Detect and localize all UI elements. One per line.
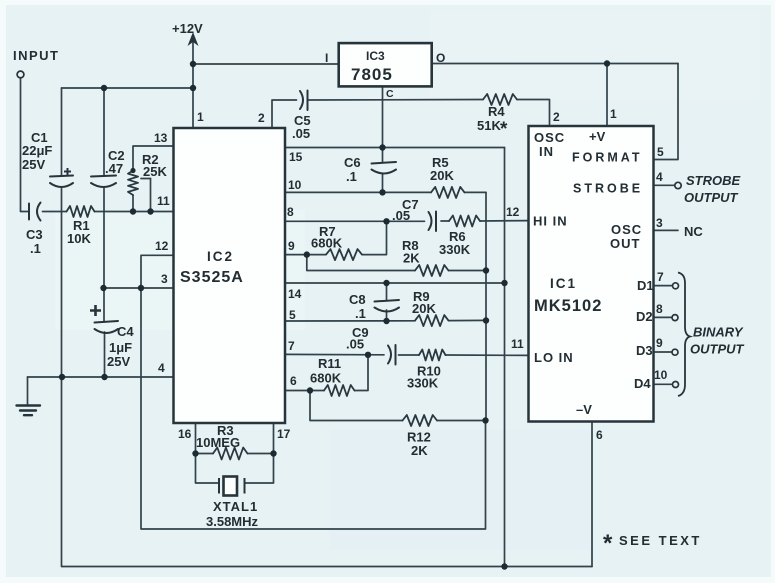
svg-text:C3: C3	[26, 227, 43, 242]
wire IC2 pin 13 to R2	[133, 146, 174, 171]
capacitor C3 .1	[28, 204, 30, 220]
svg-text:OUTPUT: OUTPUT	[690, 342, 745, 357]
wire IC1 pin 10 D4	[654, 383, 672, 385]
svg-text:S3525A: S3525A	[180, 269, 244, 286]
svg-text:9: 9	[656, 336, 663, 350]
svg-text:–V: –V	[576, 402, 592, 417]
wire IC1 pin 7 D1	[654, 285, 672, 287]
wire +5 vertical A	[504, 148, 506, 567]
svg-text:16: 16	[178, 427, 192, 441]
svg-text:12: 12	[155, 239, 169, 253]
wire R11 right lead up	[355, 355, 369, 391]
svg-text:10MEG: 10MEG	[196, 435, 240, 450]
capacitor C6 .1	[372, 162, 397, 164]
svg-text:25K: 25K	[143, 164, 167, 179]
wire IC1 pin 1 drop	[606, 64, 608, 127]
capacitor C8 .1	[375, 300, 400, 302]
svg-text:3.58MHz: 3.58MHz	[206, 514, 259, 529]
svg-text:330K: 330K	[439, 242, 471, 257]
wire IC2 pin 3	[104, 287, 174, 289]
svg-text:.1: .1	[346, 169, 357, 184]
wire IC2 pin 14 row	[285, 282, 505, 284]
svg-text:R11: R11	[318, 356, 341, 371]
svg-text:O: O	[436, 51, 445, 65]
svg-text:3: 3	[656, 216, 663, 230]
wire IC2 pin 9 row	[285, 254, 326, 256]
wire IC2 pin 7 / LO IN row	[285, 353, 384, 355]
wire IC2 pin 2 up through C5/R4 to IC1 pin 2	[272, 100, 297, 128]
wire vertical B	[485, 192, 487, 420]
C4 polarity +	[90, 305, 101, 316]
svg-text:25V: 25V	[107, 354, 130, 369]
wire IC1 pin 8 D2	[654, 316, 672, 318]
resistor R10 330K	[419, 350, 446, 361]
wire C2 to C4 vertical	[103, 212, 105, 323]
svg-text:*: *	[603, 530, 613, 557]
svg-text:D3: D3	[636, 343, 653, 358]
capacitor C7 .05	[429, 212, 432, 230]
svg-text:1: 1	[197, 110, 204, 124]
svg-text:17: 17	[277, 427, 291, 441]
wire R2 bottom lead	[132, 195, 134, 212]
svg-text:.05: .05	[346, 337, 364, 352]
svg-text:10: 10	[654, 368, 668, 382]
svg-text:2K: 2K	[403, 251, 420, 266]
svg-text:1: 1	[610, 107, 617, 121]
svg-text:8: 8	[656, 302, 663, 316]
svg-text:.05: .05	[292, 126, 310, 141]
capacitor C5 .05	[300, 91, 303, 109]
svg-text:51K: 51K	[477, 118, 501, 133]
D3 terminal	[672, 349, 678, 355]
resistor R1 10K	[67, 206, 95, 217]
wire IC3 common drop	[382, 87, 384, 148]
svg-text:OUTPUT: OUTPUT	[684, 190, 739, 205]
wire R2 wiper	[150, 179, 152, 212]
svg-text:12: 12	[506, 205, 520, 219]
resistor R3 10MEG	[213, 448, 248, 460]
svg-text:10: 10	[288, 178, 302, 192]
svg-text:1μF: 1μF	[109, 340, 132, 355]
wire IC3 output to right corner	[432, 63, 678, 65]
svg-text:15: 15	[289, 150, 303, 164]
capacitor C2 .47	[91, 176, 116, 177]
svg-text:HI IN: HI IN	[533, 214, 568, 229]
wire +12V vertical to IC2 pin 1	[192, 42, 194, 128]
svg-text:NC: NC	[684, 224, 703, 239]
svg-text:3: 3	[161, 272, 168, 286]
+12V arrow	[188, 32, 199, 46]
svg-text:IC2: IC2	[207, 249, 234, 264]
svg-text:D2: D2	[636, 309, 653, 324]
svg-text:C4: C4	[117, 324, 134, 339]
resistor R12 2K	[403, 415, 438, 426]
wire C1 branch to bottom rail	[62, 377, 593, 567]
resistor R5 20K	[431, 187, 465, 198]
wire C1/C2 top rail	[62, 87, 194, 89]
wire IC2 pin 16	[195, 423, 197, 454]
svg-text:10K: 10K	[67, 231, 91, 246]
svg-text:*: *	[500, 119, 508, 140]
wire C2 leads	[103, 88, 105, 176]
svg-text:2: 2	[258, 111, 265, 125]
IC1 MK5102 box	[529, 126, 654, 422]
resistor R8 2K	[415, 265, 449, 276]
svg-text:2K: 2K	[411, 443, 428, 458]
svg-text:FORMAT: FORMAT	[572, 151, 643, 165]
svg-text:20K: 20K	[412, 301, 436, 316]
wire IC1 pin 4 strobe output	[654, 184, 675, 186]
wire R8 branch	[307, 255, 415, 271]
svg-text:.1: .1	[30, 241, 41, 256]
svg-text:C: C	[386, 88, 394, 100]
input terminal circle	[17, 71, 24, 78]
svg-text:22μF: 22μF	[22, 143, 52, 158]
svg-text:I: I	[325, 51, 328, 65]
svg-text:INPUT: INPUT	[13, 48, 60, 63]
C1 polarity +	[64, 168, 71, 175]
wire -V riser	[591, 422, 593, 567]
svg-text:MK5102: MK5102	[534, 297, 602, 315]
wire IC2 pin 12 long bottom loop	[141, 255, 486, 529]
IC3 7805 box	[339, 43, 432, 86]
svg-text:R4: R4	[488, 104, 505, 119]
svg-text:8: 8	[287, 205, 294, 219]
wire IC2 pin 5 row / R9	[285, 320, 415, 322]
svg-text:4: 4	[158, 361, 165, 375]
wire IC2 pin 10 row to R5	[285, 191, 431, 193]
svg-text:6: 6	[290, 374, 297, 388]
resistor R9 20K	[415, 315, 449, 326]
D1 terminal	[673, 283, 679, 289]
strobe output terminal	[675, 182, 681, 188]
ground	[17, 406, 41, 416]
wire IC2 pin 8 / HI IN row	[285, 220, 425, 222]
wire input row to IC2 pin 11	[43, 211, 67, 213]
crystal XTAL1	[219, 477, 245, 496]
svg-text:14: 14	[288, 287, 302, 301]
wire R7 right lead up to pin8 row	[362, 221, 387, 254]
svg-text:13: 13	[154, 131, 168, 145]
wire right corner down to pin 5	[654, 64, 679, 160]
svg-text:STROBE: STROBE	[573, 182, 643, 196]
wire XTAL1 leads	[196, 454, 220, 484]
svg-text:STROBE: STROBE	[686, 173, 741, 188]
svg-text:XTAL1: XTAL1	[213, 499, 258, 514]
svg-text:OSC: OSC	[534, 130, 565, 145]
wire IC1 pin 3 NC	[654, 229, 679, 231]
svg-text:680K: 680K	[310, 371, 342, 386]
svg-text:6: 6	[596, 428, 603, 442]
wire C1 leads	[61, 88, 63, 176]
svg-text:IC3: IC3	[366, 49, 385, 63]
svg-text:5: 5	[289, 308, 296, 322]
svg-text:OUT: OUT	[610, 236, 640, 251]
svg-text:11: 11	[511, 337, 524, 351]
wire IC2 pin 4 / ground row	[28, 376, 174, 378]
svg-text:20K: 20K	[430, 168, 454, 183]
svg-text:+12V: +12V	[172, 21, 203, 36]
svg-text:7: 7	[657, 270, 664, 284]
svg-text:680K: 680K	[311, 236, 343, 251]
svg-text:7: 7	[288, 339, 295, 353]
svg-text:25V: 25V	[22, 157, 45, 172]
svg-text:9: 9	[288, 239, 295, 253]
svg-text:SEE TEXT: SEE TEXT	[619, 533, 702, 548]
svg-text:+V: +V	[589, 129, 606, 144]
svg-text:.1: .1	[355, 306, 366, 321]
svg-text:11: 11	[157, 194, 170, 208]
wire IC2 pin 15 row	[285, 147, 505, 149]
wire IC2 pin 17	[273, 423, 275, 454]
svg-text:D1: D1	[637, 278, 654, 293]
resistor R11 680K	[324, 385, 355, 396]
svg-text:2: 2	[553, 110, 560, 124]
binary output brace	[678, 273, 690, 397]
svg-text:D4: D4	[634, 376, 651, 391]
capacitor C1 22uF	[50, 176, 73, 177]
resistor R2 25K (trimmer)	[128, 171, 138, 196]
wire IC1 pin 9 D3	[654, 351, 672, 353]
IC2 S3525A box	[174, 128, 286, 423]
wire C6 leads	[382, 148, 384, 163]
svg-text:BINARY: BINARY	[693, 325, 744, 340]
wire ground stub	[27, 377, 29, 404]
svg-text:4: 4	[656, 170, 663, 184]
svg-text:OSC: OSC	[611, 222, 642, 237]
svg-text:.05: .05	[392, 208, 410, 223]
wire IC2 pin 6 row	[285, 390, 324, 392]
resistor R6 330K	[449, 216, 480, 227]
capacitor C4 1uF	[95, 321, 119, 323]
D4 terminal	[673, 382, 679, 388]
svg-text:5: 5	[657, 145, 664, 159]
wire input vertical	[21, 78, 29, 212]
D2 terminal	[672, 315, 678, 321]
wire R12 branch	[310, 391, 403, 421]
svg-text:LO IN: LO IN	[534, 350, 574, 365]
wire C8 leads	[386, 283, 388, 300]
resistor R7 680K	[326, 249, 362, 260]
svg-text:.47: .47	[105, 161, 123, 176]
svg-text:IN: IN	[539, 144, 554, 159]
wire R3 leads	[196, 453, 214, 455]
resistor R4 51K	[483, 94, 517, 105]
svg-text:7805: 7805	[351, 65, 393, 84]
wire +12V rail to IC3 input	[193, 63, 338, 65]
svg-text:IC1: IC1	[550, 276, 577, 291]
svg-text:330K: 330K	[407, 376, 439, 391]
svg-text:C6: C6	[344, 155, 361, 170]
svg-text:C8: C8	[349, 292, 366, 307]
capacitor C9 .05	[388, 346, 391, 364]
